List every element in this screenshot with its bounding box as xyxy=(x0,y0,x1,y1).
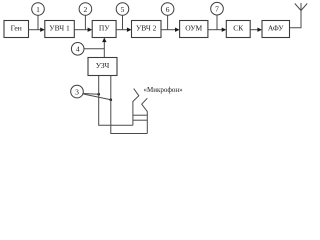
arrowhead into УВЧ2 xyxy=(127,28,132,32)
wire stem node 2 xyxy=(84,15,86,29)
node 4 (circle) xyxy=(71,43,84,56)
arrowhead into АФУ xyxy=(257,28,262,32)
svg-text:«Микрофон»: «Микрофон» xyxy=(144,86,184,94)
block ОУМ (final power amplifier) xyxy=(180,21,208,38)
junction dot on wire A xyxy=(97,93,100,96)
block Ген (master oscillator) xyxy=(4,21,29,38)
wire СК to АФУ xyxy=(250,29,258,31)
svg-text:УЗЧ: УЗЧ xyxy=(96,61,110,70)
svg-text:3: 3 xyxy=(75,87,79,96)
svg-text:Ген: Ген xyxy=(11,24,22,33)
wire B: УЗЧ to microphone (right lead) xyxy=(111,76,148,134)
svg-text:2: 2 xyxy=(84,5,88,14)
wire АФУ to antenna xyxy=(290,11,302,28)
wire stem node 5 xyxy=(122,15,124,29)
wire ПУ to УВЧ2 xyxy=(116,29,128,31)
arrowhead into ПУ xyxy=(88,28,93,32)
wire stem node 1 xyxy=(37,15,39,29)
node 6 (circle) xyxy=(161,3,174,16)
node 3 (circle) xyxy=(71,85,84,98)
microphone symbol xyxy=(133,89,147,134)
block УВЧ2 xyxy=(132,21,162,38)
junction dot on wire B xyxy=(110,98,113,101)
node 5 (circle) xyxy=(116,3,129,16)
node 1 (circle) xyxy=(32,3,45,16)
svg-text:СК: СК xyxy=(233,24,244,33)
svg-text:УВЧ 2: УВЧ 2 xyxy=(136,24,157,33)
wire ОУМ to СК xyxy=(208,29,223,31)
node 7 (circle) xyxy=(211,2,224,15)
block ПУ (modulated stage) xyxy=(92,21,116,38)
arrowhead into ПУ bottom xyxy=(102,38,106,43)
svg-text:4: 4 xyxy=(76,45,80,54)
wire stem node 7 xyxy=(216,15,218,30)
wire node 4 to modulation line xyxy=(84,48,104,50)
svg-text:УВЧ 1: УВЧ 1 xyxy=(49,24,70,33)
wire A: УЗЧ to microphone (left lead) xyxy=(99,76,133,126)
svg-text:ПУ: ПУ xyxy=(99,24,110,33)
block СК (matching circuit) xyxy=(226,21,250,38)
block УВЧ1 xyxy=(45,21,75,38)
block УЗЧ (audio amplifier) xyxy=(88,58,117,76)
arrowhead into СК xyxy=(222,28,227,32)
block АФУ (antenna feeder unit) xyxy=(262,21,290,38)
arrowhead into УВЧ1 xyxy=(40,28,45,32)
wire stem node 6 xyxy=(167,15,169,29)
wire УВЧ1 to ПУ xyxy=(74,29,88,31)
leader line node 3 to wire A xyxy=(83,93,98,96)
antenna xyxy=(295,3,307,11)
svg-text:6: 6 xyxy=(166,5,170,14)
wire УВЧ2 to ОУМ xyxy=(161,29,176,31)
svg-text:АФУ: АФУ xyxy=(268,24,284,33)
node 2 (circle) xyxy=(79,3,92,16)
svg-text:ОУМ: ОУМ xyxy=(185,24,202,33)
svg-text:1: 1 xyxy=(36,5,40,14)
leader line node 3 to wire B xyxy=(83,94,111,100)
arrowhead into ОУМ xyxy=(175,28,180,32)
svg-text:5: 5 xyxy=(121,5,125,14)
svg-text:7: 7 xyxy=(215,5,219,14)
wire Ген to УВЧ1 xyxy=(29,29,42,31)
wire УЗЧ to ПУ (modulation) xyxy=(103,41,105,58)
